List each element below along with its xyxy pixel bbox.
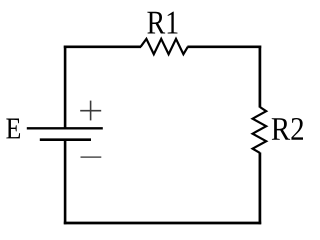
battery E top plate: [27, 127, 103, 129]
resistor R2: [253, 107, 267, 153]
wire left upper: [64, 46, 67, 129]
wire bottom: [64, 222, 261, 225]
label R1: [147, 12, 177, 34]
label R2: [272, 118, 303, 140]
wire right upper: [259, 46, 262, 108]
plus sign: [80, 101, 101, 121]
wire right lower: [259, 153, 262, 225]
wire left lower: [64, 140, 67, 225]
minus sign: [81, 156, 102, 158]
wire top-left segment: [64, 45, 141, 48]
resistor R1: [141, 39, 188, 54]
label E: [6, 119, 20, 139]
battery E bottom plate: [40, 138, 91, 141]
wire top-right segment: [187, 45, 261, 48]
